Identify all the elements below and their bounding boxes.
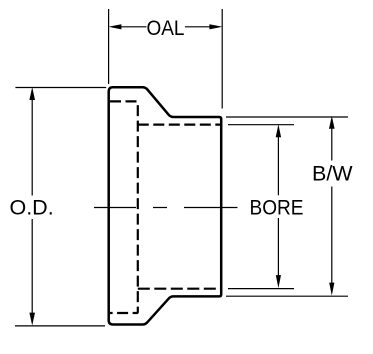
hidden line counterbore (dashed) [110, 101, 138, 313]
dimension B/W extension line top [226, 116, 348, 118]
dimension OAL extension line left [108, 9, 110, 84]
dimension BORE arrow down [276, 275, 281, 288]
dimension O.D. arrow down [29, 313, 35, 326]
part outline (ferrule cross-section) [109, 87, 222, 324]
dimension B/W extension line bottom [226, 295, 348, 297]
dimension O.D. arrow up [29, 87, 35, 100]
dimension BORE extension line bottom [228, 288, 294, 290]
svg-text:O.D.: O.D. [9, 196, 53, 220]
dimension B/W line [331, 128, 333, 283]
dimension BORE arrow up [276, 124, 281, 137]
dimension BORE extension line top [228, 124, 294, 126]
svg-text:BORE: BORE [250, 196, 304, 220]
dimension OAL arrow left [108, 24, 121, 29]
dimension OAL arrow right [209, 24, 222, 29]
dimension O.D. extension line top [15, 87, 106, 89]
dimension OAL line [120, 26, 211, 28]
dimension B/W arrow down [329, 283, 334, 296]
svg-text:B/W: B/W [312, 162, 353, 186]
dimension O.D. extension line bottom [15, 325, 105, 327]
hidden line bore bottom (dashed) [138, 288, 220, 290]
dimension O.D. line [31, 100, 33, 314]
hidden line bore top (dashed) [138, 123, 220, 125]
centerline [94, 207, 238, 209]
svg-text:OAL: OAL [147, 16, 185, 40]
dimension B/W arrow up [329, 116, 335, 129]
dimension BORE line [277, 137, 279, 276]
dimension OAL extension line right [221, 9, 223, 109]
